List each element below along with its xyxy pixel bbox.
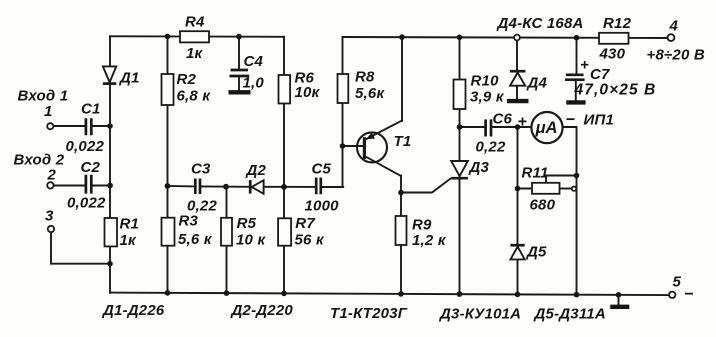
label D4 type xyxy=(496,15,584,32)
wire C7 stub to ground xyxy=(575,81,577,100)
svg-text:6,8 к: 6,8 к xyxy=(177,88,212,105)
svg-text:R12: R12 xyxy=(603,15,632,32)
capacitor C2 xyxy=(67,159,106,212)
resistor R6 xyxy=(279,70,321,104)
svg-text:R5: R5 xyxy=(237,215,257,232)
node dot bottom right column xyxy=(574,292,580,298)
wire middle row segment 4 xyxy=(322,186,344,188)
svg-text:R7: R7 xyxy=(295,215,315,232)
svg-text:10 к: 10 к xyxy=(236,232,266,249)
svg-text:1к: 1к xyxy=(120,232,138,249)
svg-text:2: 2 xyxy=(47,167,57,184)
svg-text:C7: C7 xyxy=(590,66,610,83)
zener diode D4 xyxy=(510,71,548,91)
resistor R10 xyxy=(454,73,505,110)
resistor R2 xyxy=(162,71,212,105)
resistor R7 xyxy=(278,215,325,249)
node dot bottom R3 xyxy=(165,290,171,296)
wire input 2 xyxy=(54,185,110,187)
wire C4 stub to ground xyxy=(238,76,240,90)
transistor T1 xyxy=(357,121,411,177)
wire top rail left xyxy=(110,35,284,38)
resistor R1 xyxy=(105,216,140,250)
svg-text:Д3: Д3 xyxy=(468,159,490,176)
node dot ground xyxy=(616,292,622,298)
svg-text:+: + xyxy=(580,57,589,74)
svg-text:C1: C1 xyxy=(81,101,101,118)
label D3 type xyxy=(438,306,521,323)
svg-text:4: 4 xyxy=(669,18,679,35)
wire input 1 xyxy=(53,125,110,127)
resistor R9 xyxy=(396,216,447,249)
svg-text:C6: C6 xyxy=(493,111,513,128)
ground bar under D4 xyxy=(507,99,529,103)
svg-text:430: 430 xyxy=(599,46,626,63)
svg-text:1: 1 xyxy=(44,103,53,120)
svg-text:Д5-Д311А: Д5-Д311А xyxy=(533,306,606,323)
node dot bottom D3 xyxy=(457,291,463,297)
resistor R3 xyxy=(162,213,213,249)
wire R11 tap xyxy=(546,176,577,183)
wire middle row segment 2 xyxy=(201,185,251,187)
node dot C6 left junction xyxy=(457,124,463,130)
wire D5 column xyxy=(517,127,519,294)
svg-text:Д5: Д5 xyxy=(525,244,547,261)
node dot R5 top xyxy=(223,184,229,190)
node dot C4 top xyxy=(236,34,242,40)
wire R5 column xyxy=(226,187,228,294)
wire C7 column xyxy=(576,38,578,74)
node dot C1 junction xyxy=(107,123,113,129)
wire middle row segment 3 xyxy=(264,186,316,188)
svg-text:T1: T1 xyxy=(394,133,412,150)
svg-text:R1: R1 xyxy=(120,216,140,233)
svg-text:0,022: 0,022 xyxy=(66,138,105,155)
svg-text:μA: μA xyxy=(535,119,558,137)
wire R10/D3 column xyxy=(459,37,461,294)
resistor R5 xyxy=(221,215,266,249)
terminal 4 xyxy=(647,18,705,64)
label D1 type xyxy=(101,302,165,319)
label D2 type xyxy=(230,302,294,319)
wire C6 row right to meter xyxy=(492,126,531,128)
label T1 type xyxy=(330,305,408,322)
input terminal 2 xyxy=(14,152,65,189)
wire R11 right lead xyxy=(560,188,572,190)
wire middle row segment 1 xyxy=(168,185,195,187)
diode D1 xyxy=(103,66,140,86)
svg-text:+8÷20 В: +8÷20 В xyxy=(647,47,705,64)
node dot R2 top xyxy=(165,34,171,40)
wire gate from emitter to D3 xyxy=(401,179,451,193)
svg-text:47,0×25 В: 47,0×25 В xyxy=(574,82,657,99)
resistor R8 xyxy=(338,69,386,104)
node dot bottom R7 xyxy=(281,291,287,297)
svg-text:Д2-Д220: Д2-Д220 xyxy=(230,302,294,319)
node dot emitter junction xyxy=(398,190,404,196)
wire left column (D1/R1) xyxy=(109,36,111,293)
diode D2 xyxy=(245,162,267,194)
node dot C6 meter junction xyxy=(515,124,521,130)
svg-text:Вход 1: Вход 1 xyxy=(18,88,69,105)
label D5 type xyxy=(533,306,606,323)
terminal 3 xyxy=(45,208,54,233)
ground bar under C4 xyxy=(229,90,251,94)
svg-text:5: 5 xyxy=(673,274,682,291)
node dot R10 top xyxy=(457,35,463,41)
svg-text:−: − xyxy=(566,112,576,129)
svg-text:0,22: 0,22 xyxy=(187,198,217,215)
svg-text:C2: C2 xyxy=(81,159,101,176)
svg-text:0,022: 0,022 xyxy=(67,195,106,212)
wire D4 stub to ground xyxy=(516,86,518,99)
svg-text:Т1-КТ203Г: Т1-КТ203Г xyxy=(330,305,408,322)
svg-text:1000: 1000 xyxy=(305,198,340,215)
capacitor C1 xyxy=(66,101,105,156)
svg-text:Д1: Д1 xyxy=(118,70,140,87)
node dot R11 tap junction xyxy=(574,173,580,179)
resistor R12 xyxy=(599,15,632,63)
svg-text:Вход 2: Вход 2 xyxy=(14,152,65,169)
node dot bottom R9 xyxy=(398,291,404,297)
wire T1 collector xyxy=(401,37,403,121)
wire D4 column xyxy=(516,41,518,71)
capacitor C7 electrolytic xyxy=(565,57,656,99)
svg-text:C3: C3 xyxy=(191,161,211,178)
wire R6/R7 column xyxy=(283,37,285,294)
wire C4 column top xyxy=(238,37,240,69)
wire T1 base xyxy=(343,145,364,147)
node dot collector top xyxy=(399,34,405,40)
svg-text:R8: R8 xyxy=(355,69,375,86)
meter IP1 xyxy=(518,112,615,144)
node dot bottom R5 xyxy=(224,290,230,296)
node dot R11 left junction xyxy=(515,186,521,192)
capacitor C6 xyxy=(476,111,513,156)
wire terminal 3 xyxy=(51,232,110,263)
wire bottom rail xyxy=(110,293,669,296)
capacitor C3 xyxy=(187,161,217,215)
node dot C7 top xyxy=(574,35,580,41)
resistor R11 potentiometer xyxy=(522,165,577,214)
capacitor C5 xyxy=(305,161,340,215)
wire T1 emitter / R9 column xyxy=(400,176,402,295)
capacitor C4 electrolytic xyxy=(230,53,265,92)
wire R2/R3 column xyxy=(167,36,169,293)
svg-text:R9: R9 xyxy=(412,217,432,234)
terminal 5 xyxy=(669,274,694,304)
wire R8 column xyxy=(342,37,344,187)
wire R11 left lead xyxy=(518,188,533,190)
ground symbol on bottom rail xyxy=(610,295,629,307)
svg-text:Д1-Д226: Д1-Д226 xyxy=(101,302,165,319)
svg-text:1,2 к: 1,2 к xyxy=(412,232,447,249)
wire meter minus / right column xyxy=(563,127,577,295)
svg-text:Д3-КУ101А: Д3-КУ101А xyxy=(438,306,521,323)
svg-text:1,0: 1,0 xyxy=(243,75,265,92)
node circle D4 top xyxy=(514,35,520,41)
ground bar under C7 xyxy=(566,100,585,104)
svg-text:680: 680 xyxy=(530,197,556,214)
svg-text:−: − xyxy=(684,286,694,303)
svg-text:C5: C5 xyxy=(312,161,332,178)
svg-text:10к: 10к xyxy=(295,84,321,101)
node dot R7 top xyxy=(281,184,287,190)
svg-text:5,6 к: 5,6 к xyxy=(178,231,213,248)
svg-text:C4: C4 xyxy=(244,53,264,70)
svg-text:Д4: Д4 xyxy=(526,75,548,92)
node dot T1 base junction xyxy=(340,143,346,149)
wire C6 row left xyxy=(460,126,485,128)
svg-text:R11: R11 xyxy=(522,165,549,182)
svg-text:3: 3 xyxy=(45,208,54,225)
svg-text:R10: R10 xyxy=(471,73,500,90)
node dot terminal3 junction xyxy=(107,261,113,267)
resistor R4 xyxy=(180,14,209,63)
svg-text:0,22: 0,22 xyxy=(476,139,506,156)
svg-text:R3: R3 xyxy=(179,213,199,230)
svg-text:R4: R4 xyxy=(185,14,205,31)
svg-text:Д4-КС 168А: Д4-КС 168А xyxy=(496,15,584,32)
svg-text:3,9 к: 3,9 к xyxy=(470,89,505,106)
node dot bottom D5 xyxy=(515,292,521,298)
svg-text:5,6к: 5,6к xyxy=(355,85,385,102)
svg-text:R2: R2 xyxy=(177,71,197,88)
diode D5 xyxy=(510,244,547,261)
input terminal 1 xyxy=(18,88,69,130)
svg-text:1к: 1к xyxy=(186,45,204,62)
node dot C2 junction xyxy=(107,183,113,189)
thyristor D3 xyxy=(451,159,489,178)
svg-text:Д2: Д2 xyxy=(245,162,267,179)
svg-text:56 к: 56 к xyxy=(295,232,325,249)
node dot C3 row left xyxy=(165,183,171,189)
svg-text:ИП1: ИП1 xyxy=(584,112,615,129)
wire top rail right xyxy=(343,37,668,38)
